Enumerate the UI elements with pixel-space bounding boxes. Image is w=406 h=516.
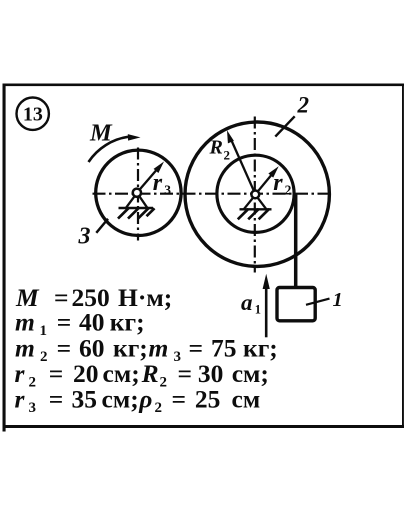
svg-text:a: a bbox=[241, 290, 253, 315]
torque arc M bbox=[89, 137, 129, 162]
rope from inner pulley to load bbox=[294, 195, 298, 290]
leader line to label 3 bbox=[96, 219, 108, 233]
wheel 3 support triangle bbox=[126, 196, 147, 208]
wheel 2 inner rim bbox=[217, 155, 294, 232]
wheel 3 rim bbox=[96, 150, 181, 235]
wheel 2 vertical centerline bbox=[254, 117, 256, 273]
problem number badge circle 13 bbox=[17, 98, 49, 130]
svg-text:1: 1 bbox=[333, 289, 343, 311]
svg-text:13: 13 bbox=[23, 104, 43, 126]
wheel 2 support ground line bbox=[240, 208, 272, 210]
svg-text:r: r bbox=[153, 170, 163, 196]
wheel 2 support triangle bbox=[244, 198, 266, 209]
spoke arrow r2 bbox=[255, 174, 272, 194]
leader line to label 1 bbox=[306, 299, 330, 305]
wheel 2 outer rim bbox=[185, 122, 329, 266]
svg-text:R: R bbox=[209, 137, 223, 159]
main horizontal centerline bbox=[93, 193, 334, 195]
wheel 3 support ground line bbox=[119, 207, 154, 209]
frame left border bbox=[3, 84, 6, 432]
frame right border bbox=[402, 84, 404, 428]
wheel 3 vertical centerline bbox=[137, 148, 139, 241]
wheel 2 support hatching bbox=[238, 209, 269, 219]
wheel 3 support hatching bbox=[118, 208, 155, 219]
svg-text:3: 3 bbox=[164, 183, 171, 198]
acceleration arrow a1 bbox=[265, 286, 268, 337]
leader line to label 2 bbox=[275, 116, 294, 136]
frame bottom border bbox=[3, 425, 405, 428]
torque arrowhead bbox=[128, 134, 141, 141]
wheel 2 pivot pin bbox=[251, 191, 259, 199]
svg-text:M: M bbox=[89, 120, 113, 147]
svg-text:3: 3 bbox=[78, 224, 91, 250]
spoke arrow r3 bbox=[137, 169, 157, 192]
svg-text:r: r bbox=[273, 170, 283, 196]
svg-text:2: 2 bbox=[285, 183, 292, 198]
frame top border bbox=[3, 84, 405, 87]
wheel 3 pivot pin bbox=[133, 189, 141, 197]
spoke arrow R2 bbox=[232, 141, 256, 195]
svg-text:2: 2 bbox=[297, 93, 310, 118]
load block 1 bbox=[277, 288, 315, 321]
svg-text:2: 2 bbox=[224, 148, 231, 163]
svg-text:1: 1 bbox=[255, 303, 261, 317]
